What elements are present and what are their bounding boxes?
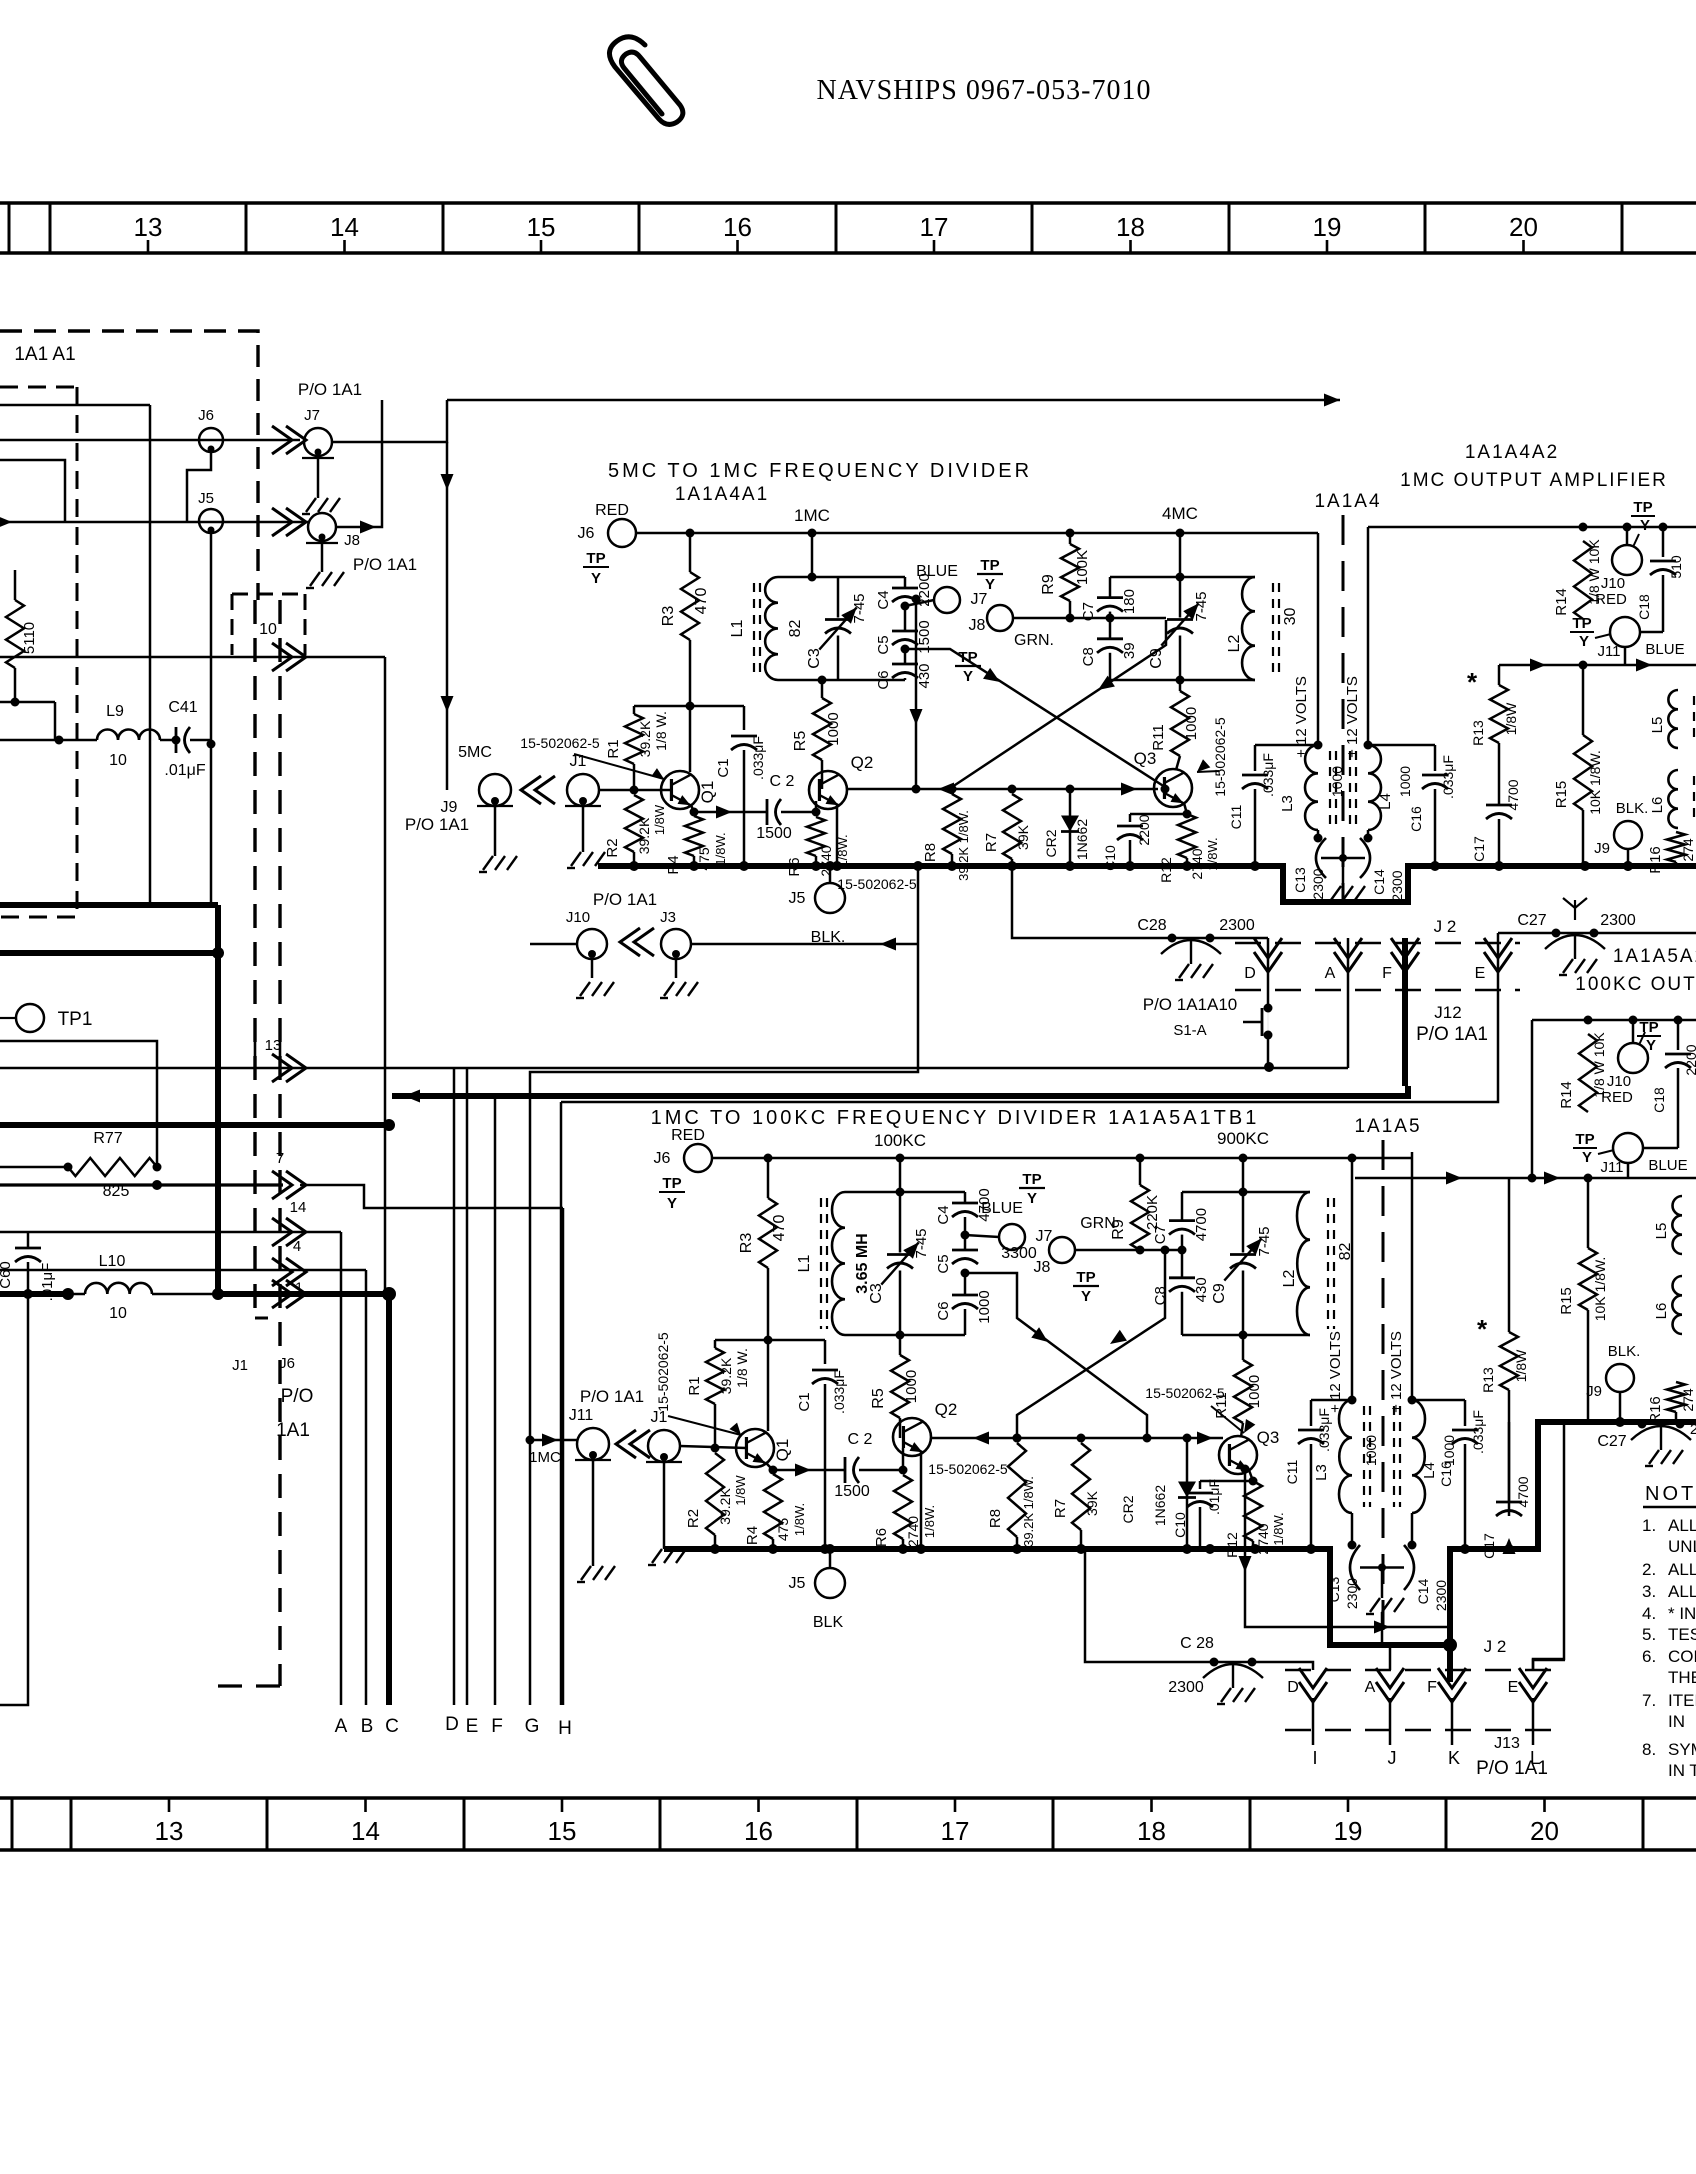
svg-text:UNL: UNL xyxy=(1668,1537,1696,1556)
test point J10 RED with TP Y xyxy=(1629,1016,1638,1025)
svg-text:J7: J7 xyxy=(971,591,988,608)
svg-text:C6: C6 xyxy=(935,1301,952,1320)
svg-text:C17: C17 xyxy=(1471,836,1487,862)
svg-text:TP: TP xyxy=(980,557,999,574)
wire input to Q1 base xyxy=(680,1446,746,1448)
svg-text:1/8W.: 1/8W. xyxy=(792,1503,807,1536)
svg-text:C11: C11 xyxy=(1284,1459,1300,1484)
svg-text:R11: R11 xyxy=(1150,724,1167,750)
ground bus (thick) xyxy=(664,1422,1696,1645)
svg-text:900KC: 900KC xyxy=(1217,1129,1269,1148)
svg-text:C28: C28 xyxy=(1137,917,1166,934)
svg-text:100KC OUT: 100KC OUT xyxy=(1575,974,1696,995)
capacitor C5 xyxy=(892,630,918,633)
wire from J5 down xyxy=(210,533,213,905)
svg-text:1/8 W.: 1/8 W. xyxy=(734,1348,750,1388)
inductor L1 with core xyxy=(765,577,778,680)
capacitor C14 2300 xyxy=(1411,1513,1414,1545)
1MC feed to divider2 input xyxy=(530,1439,577,1442)
svg-text:39.2K: 39.2K xyxy=(717,1488,733,1525)
input connector J9 xyxy=(479,774,511,806)
svg-text:J9: J9 xyxy=(441,799,458,816)
svg-text:C17: C17 xyxy=(1481,1533,1497,1559)
inductor L5 xyxy=(1672,1196,1682,1254)
capacitor C8 xyxy=(1097,637,1123,640)
svg-text:BLUE: BLUE xyxy=(1648,1157,1687,1174)
svg-text:F: F xyxy=(1382,965,1392,982)
svg-text:TP: TP xyxy=(1633,499,1652,516)
svg-text:1MC: 1MC xyxy=(529,1449,561,1466)
long signal wire row 13 to J2 pin A xyxy=(0,1067,1348,1070)
capacitor C18 xyxy=(1659,523,1668,532)
resistor R5 1000 xyxy=(818,676,827,685)
svg-text:1N662: 1N662 xyxy=(1074,819,1090,860)
svg-text:18: 18 xyxy=(1137,1816,1166,1846)
wire row 7 (y=1185) xyxy=(0,1183,283,1186)
svg-text:14: 14 xyxy=(290,1199,307,1216)
svg-text:7.: 7. xyxy=(1642,1691,1656,1710)
top border ruler band xyxy=(0,201,1696,204)
svg-text:1/8W.: 1/8W. xyxy=(1271,1512,1286,1545)
inductor L6 xyxy=(1668,770,1678,828)
column D wire xyxy=(453,1068,456,1705)
pin A feed from transformer ground xyxy=(1382,1612,1390,1670)
pin F line (thick) xyxy=(1402,938,1408,1086)
svg-text:BLK.: BLK. xyxy=(1608,1343,1641,1360)
capacitor C7 xyxy=(1109,577,1112,598)
svg-text:Q1: Q1 xyxy=(773,1439,792,1462)
wire J7 output to top rail xyxy=(332,400,447,442)
variable capacitor C3 7-45 xyxy=(837,577,840,618)
inductor L2 with core xyxy=(1242,577,1255,680)
svg-text:C7: C7 xyxy=(1080,602,1097,621)
J13 pin A xyxy=(1376,1668,1404,1688)
module boundary 1A1A5 (dashed) xyxy=(1382,1140,1385,1640)
svg-text:R16: R16 xyxy=(1647,846,1664,874)
input wire with arrows xyxy=(1499,664,1696,667)
svg-text:C4: C4 xyxy=(935,1205,952,1224)
connector J7 with ground xyxy=(304,428,332,456)
svg-text:GRN.: GRN. xyxy=(1014,632,1054,649)
pin D feed xyxy=(1245,1662,1313,1670)
resistor R4 475 xyxy=(769,1466,778,1475)
connector J13 dashed rows xyxy=(1285,1669,1555,1672)
svg-text:L6: L6 xyxy=(1653,1303,1670,1320)
svg-text:BLUE: BLUE xyxy=(1645,641,1684,658)
test point J7 BLUE xyxy=(965,1235,999,1237)
test point J7 BLUE xyxy=(905,602,934,606)
pin A line to signal 13 xyxy=(1347,938,1350,1068)
+12 VOLTS feed left xyxy=(1317,533,1320,745)
svg-text:2740: 2740 xyxy=(905,1516,921,1547)
svg-text:430: 430 xyxy=(916,663,933,688)
long wire top (to 1A1A4 area) xyxy=(447,399,1340,402)
svg-text:39.2K 1/8W.: 39.2K 1/8W. xyxy=(956,810,971,881)
svg-text:1/8W.: 1/8W. xyxy=(922,1505,937,1538)
svg-text:IN: IN xyxy=(1668,1712,1685,1731)
svg-text:ALL: ALL xyxy=(1668,1516,1696,1535)
svg-text:COM: COM xyxy=(1668,1647,1696,1666)
svg-text:1000: 1000 xyxy=(1183,707,1200,740)
ground under input connector 2 xyxy=(582,806,585,852)
svg-text:2.: 2. xyxy=(1642,1560,1656,1579)
svg-text:4.: 4. xyxy=(1642,1604,1656,1623)
wire row to J6 conn (y=440) xyxy=(0,439,300,442)
svg-text:15: 15 xyxy=(527,212,556,242)
transistor Q3 xyxy=(1241,1423,1243,1437)
svg-text:39: 39 xyxy=(1121,642,1138,659)
resistor R16 274 xyxy=(1667,832,1685,862)
svg-text:475: 475 xyxy=(775,1518,791,1542)
divider2 enclosure box left edge / column H xyxy=(560,1102,563,1705)
svg-text:C14: C14 xyxy=(1415,1578,1431,1604)
capacitor C13 2300 xyxy=(1317,830,1320,838)
svg-text:.033μF: .033μF xyxy=(1260,753,1276,797)
resistor R5 1000 xyxy=(896,1331,905,1340)
svg-text:.033μF: .033μF xyxy=(831,1370,847,1414)
Q2 emitter to ground bus xyxy=(836,804,839,866)
variable capacitor C3 7-45 xyxy=(899,1192,902,1253)
tank2 top wire xyxy=(1110,576,1255,579)
svg-text:Y: Y xyxy=(667,1195,677,1212)
svg-text:A: A xyxy=(335,1716,348,1737)
tank2 bottom wire xyxy=(1110,679,1255,682)
cable chevron 10 with dashed box xyxy=(231,594,234,655)
svg-text:10: 10 xyxy=(109,1305,127,1322)
svg-text:.01μF: .01μF xyxy=(164,762,205,779)
svg-text:THET: THET xyxy=(1668,1668,1696,1687)
resistor R3 470 xyxy=(689,533,692,572)
svg-text:J1: J1 xyxy=(570,753,587,770)
svg-text:J6: J6 xyxy=(654,1150,671,1167)
svg-text:.033μF: .033μF xyxy=(1316,1408,1332,1452)
svg-text:2200: 2200 xyxy=(1683,1044,1696,1075)
capacitor C11 .033uF xyxy=(1255,744,1318,747)
svg-text:J8: J8 xyxy=(969,617,986,634)
svg-text:L1: L1 xyxy=(729,620,746,638)
wire row to J5 (y=522) xyxy=(0,521,310,524)
inductor L3 (primary) xyxy=(1314,741,1323,750)
svg-text:P/O 1A1A10: P/O 1A1A10 xyxy=(1143,995,1238,1014)
resistor R13* 1/8W xyxy=(1498,665,1501,685)
svg-text:180: 180 xyxy=(1121,589,1138,614)
svg-text:1000: 1000 xyxy=(976,1290,993,1323)
svg-text:R14: R14 xyxy=(1553,588,1570,616)
junction C4/C5 to J7 xyxy=(964,1217,967,1250)
wire thick stub y=905 xyxy=(0,902,218,908)
svg-text:J7: J7 xyxy=(304,407,320,424)
resistor R9 xyxy=(1066,529,1075,538)
variable capacitor C9 7-45 xyxy=(1242,1192,1245,1253)
transistor Q1 xyxy=(661,771,699,809)
cable chevron at input xyxy=(630,1430,650,1458)
svg-text:C41: C41 xyxy=(168,699,197,716)
svg-text:1500: 1500 xyxy=(834,1483,870,1500)
svg-text:7: 7 xyxy=(276,1150,284,1167)
bottom border ruler band xyxy=(0,1796,1696,1799)
svg-text:Y: Y xyxy=(1081,1288,1091,1305)
J13 pin F xyxy=(1438,1668,1466,1688)
svg-text:14: 14 xyxy=(351,1816,380,1846)
wire J8 to R9 bottom and C7/C8 junction xyxy=(1013,617,1166,620)
transistor Q3 xyxy=(1176,756,1180,770)
capacitor C2 1500 xyxy=(844,1457,847,1483)
svg-text:Y: Y xyxy=(1579,633,1589,650)
tank1 top wire xyxy=(845,1191,965,1194)
svg-text:L10: L10 xyxy=(99,1253,126,1270)
svg-text:J8: J8 xyxy=(1034,1259,1051,1276)
svg-text:2200: 2200 xyxy=(1136,814,1152,845)
svg-text:Y: Y xyxy=(985,576,995,593)
wire J11 to C18 xyxy=(1640,631,1663,634)
svg-text:1A1A5A2: 1A1A5A2 xyxy=(1613,946,1696,967)
svg-text:7-45: 7-45 xyxy=(1256,1226,1273,1256)
connector J5 (1A1A1) xyxy=(199,509,223,533)
svg-text:C1: C1 xyxy=(796,1392,813,1411)
svg-text:1A1A5: 1A1A5 xyxy=(1354,1116,1421,1137)
cable chevron at input xyxy=(535,776,555,804)
svg-text:430: 430 xyxy=(1193,1277,1210,1302)
J2 pin E xyxy=(1484,938,1512,958)
svg-text:1500: 1500 xyxy=(756,825,792,842)
top rail wire xyxy=(636,532,1318,535)
svg-text:1.: 1. xyxy=(1642,1516,1656,1535)
resistor R15 10K 1/8W xyxy=(1582,665,1585,735)
signal wire Q3 output to J13 (bottom) xyxy=(1245,1469,1448,1627)
test point J11 BLUE with TP Y xyxy=(1610,617,1640,647)
svg-text:P/O 1A1: P/O 1A1 xyxy=(1476,1758,1548,1779)
page header: paperclip mark xyxy=(609,37,682,125)
resistor R3 470 xyxy=(767,1158,770,1198)
svg-text:R8: R8 xyxy=(922,843,939,862)
junction C5/C6 xyxy=(961,1269,970,1278)
svg-text:J10: J10 xyxy=(1607,1073,1631,1090)
module boundary 1A1A1 (dashed) xyxy=(0,331,258,600)
svg-text:R8: R8 xyxy=(987,1509,1004,1528)
svg-text:2300: 2300 xyxy=(1344,1578,1360,1609)
svg-text:15-502062-5: 15-502062-5 xyxy=(928,1461,1008,1477)
svg-text:100K: 100K xyxy=(1074,550,1091,585)
connector J8 with ground xyxy=(308,513,336,541)
svg-text:1A1A4A2: 1A1A4A2 xyxy=(1465,442,1559,463)
vertical wire x=150 xyxy=(149,405,152,905)
inductor L9 xyxy=(54,702,57,740)
svg-text:J 2: J 2 xyxy=(1434,917,1457,936)
ground under input connector 2 xyxy=(663,1462,666,1549)
diode CR2 1N662 xyxy=(1066,785,1075,794)
svg-text:18: 18 xyxy=(1116,212,1145,242)
svg-text:L5: L5 xyxy=(1653,1223,1670,1240)
svg-text:39.2K 1/8W.: 39.2K 1/8W. xyxy=(1021,1476,1036,1547)
svg-text:Y: Y xyxy=(1640,517,1650,534)
svg-text:TP1: TP1 xyxy=(58,1009,93,1030)
capacitor C17 4700 xyxy=(1508,1390,1511,1502)
svg-text:15-502062-5: 15-502062-5 xyxy=(1212,717,1228,797)
cross-couple wire B (to Q2 side) xyxy=(1017,1252,1165,1436)
svg-text:.01μF: .01μF xyxy=(39,1263,56,1302)
svg-text:R15: R15 xyxy=(1558,1287,1575,1315)
svg-text:82: 82 xyxy=(787,620,804,638)
svg-text:L3: L3 xyxy=(1279,795,1296,812)
svg-text:Y: Y xyxy=(963,668,973,685)
wire row 7 continues to column H xyxy=(300,1185,563,1208)
svg-text:R1: R1 xyxy=(605,739,622,758)
J2 pin D xyxy=(1254,938,1282,958)
test point J8 GRN xyxy=(987,605,1013,631)
svg-text:TP: TP xyxy=(1076,1269,1095,1286)
column F wire xyxy=(494,1096,497,1705)
svg-text:39K: 39K xyxy=(1084,1490,1100,1516)
ground under input connector 1 xyxy=(592,1460,595,1566)
svg-text:Q1: Q1 xyxy=(698,781,717,804)
center plate and ground xyxy=(1360,1566,1404,1568)
transistor Q1 xyxy=(736,1429,774,1467)
svg-text:G: G xyxy=(525,1716,540,1737)
svg-text:L3: L3 xyxy=(1313,1464,1330,1481)
svg-text:J9: J9 xyxy=(1594,840,1610,857)
svg-text:39K: 39K xyxy=(1015,824,1031,850)
junction stub y=702 xyxy=(0,701,55,704)
capacitor C1 .033uF xyxy=(824,1340,827,1364)
svg-text:C16: C16 xyxy=(1408,806,1424,832)
resistor R14 10K 1/8W xyxy=(1584,1016,1593,1025)
svg-text:P/O 1A1: P/O 1A1 xyxy=(580,1387,644,1406)
svg-text:D: D xyxy=(1287,1679,1299,1696)
svg-text:E: E xyxy=(1475,965,1486,982)
svg-text:P/O 1A1: P/O 1A1 xyxy=(298,380,362,399)
svg-text:D: D xyxy=(1244,965,1256,982)
svg-text:BLK: BLK xyxy=(813,1614,844,1631)
input connector J1 xyxy=(648,1430,680,1462)
svg-text:* IND: * IND xyxy=(1668,1604,1696,1623)
svg-text:R9: R9 xyxy=(1040,574,1057,595)
svg-text:C7: C7 xyxy=(1152,1225,1169,1244)
capacitor C7 xyxy=(1181,1192,1184,1221)
inductor L3 (primary) xyxy=(1348,1396,1357,1405)
wire R3 to bias row xyxy=(767,1268,770,1340)
svg-text:C8: C8 xyxy=(1080,647,1097,666)
svg-text:C60: C60 xyxy=(0,1261,14,1289)
+12 VOLTS feed right xyxy=(1367,527,1370,745)
svg-text:39.2K: 39.2K xyxy=(718,1357,734,1394)
resistor R12 2740 xyxy=(1178,814,1196,858)
resistor R14 10K 1/8W xyxy=(1579,523,1588,532)
resistor R9 xyxy=(1136,1154,1145,1163)
signal wire down to 5MC input xyxy=(446,442,449,790)
riser from J7 junction to collector wire xyxy=(915,602,918,789)
vertical from row 10 down to thick node xyxy=(384,657,387,1294)
svg-text:Y: Y xyxy=(1027,1190,1037,1207)
svg-text:J11: J11 xyxy=(569,1407,594,1424)
svg-text:L2: L2 xyxy=(1281,1270,1298,1288)
connector J2 dashed rows xyxy=(1235,942,1520,945)
svg-text:C13: C13 xyxy=(1292,867,1308,893)
svg-text:+ 12 VOLTS: + 12 VOLTS xyxy=(1344,676,1361,758)
feed-through capacitor C28 (bottom) xyxy=(1085,1549,1245,1662)
svg-text:L4: L4 xyxy=(1377,793,1394,810)
wire J10 row to G column xyxy=(530,943,577,946)
svg-text:P/O 1A1: P/O 1A1 xyxy=(353,555,417,574)
svg-text:C9: C9 xyxy=(1211,1283,1228,1304)
svg-text:5110: 5110 xyxy=(21,622,38,654)
svg-text:15-502062-5: 15-502062-5 xyxy=(837,876,917,892)
svg-text:2: 2 xyxy=(1690,1421,1696,1438)
junction R3 top xyxy=(686,529,695,538)
amp2 rail feed riser xyxy=(1531,1020,1534,1178)
svg-text:H: H xyxy=(558,1718,572,1739)
+12 VOLTS feed right xyxy=(1411,1152,1414,1400)
svg-text:C27: C27 xyxy=(1517,912,1546,929)
resistor R15 10K 1/8W xyxy=(1587,1178,1590,1248)
tank1 bottom wire xyxy=(778,679,905,682)
svg-text:1/8W: 1/8W xyxy=(1513,1349,1529,1382)
svg-text:C4: C4 xyxy=(875,590,892,609)
capacitor C16 .033uF xyxy=(1368,744,1435,747)
svg-text:1A1A4: 1A1A4 xyxy=(1314,491,1381,512)
svg-text:274: 274 xyxy=(1680,1388,1696,1412)
svg-text:P/O 1A1: P/O 1A1 xyxy=(405,815,469,834)
resistor R2 39.2K xyxy=(706,1453,724,1535)
test point J9 BLK xyxy=(1614,821,1642,849)
column C wire (thick) xyxy=(386,1294,392,1705)
svg-text:C 2: C 2 xyxy=(770,773,795,790)
wire row below TP1 xyxy=(0,1041,157,1167)
svg-text:20: 20 xyxy=(1509,212,1538,242)
svg-text:TP: TP xyxy=(586,550,605,567)
capacitor C11 .033uF xyxy=(1311,1399,1352,1402)
emitter wire Q1 to C2 xyxy=(766,1463,845,1470)
input wire with arrows xyxy=(1355,1177,1696,1180)
resistor R12 2740 xyxy=(1244,1481,1262,1541)
svg-text:C 2: C 2 xyxy=(848,1431,873,1448)
capacitor C16 .033uF xyxy=(1412,1399,1465,1402)
capacitor C13 2300 xyxy=(1351,1513,1354,1545)
resistor R7 39K xyxy=(1008,785,1017,794)
svg-text:39.2K: 39.2K xyxy=(636,817,652,854)
svg-text:C3: C3 xyxy=(868,1283,885,1304)
svg-text:R7: R7 xyxy=(1052,1499,1069,1518)
connector column dashed lines J1/J6 P/O 1A1 xyxy=(253,600,256,1318)
svg-text:Q2: Q2 xyxy=(851,753,874,772)
svg-text:C11: C11 xyxy=(1228,804,1244,829)
svg-text:4: 4 xyxy=(293,1238,301,1255)
svg-text:J9: J9 xyxy=(1586,1383,1602,1400)
svg-text:F: F xyxy=(491,1716,503,1737)
antenna mark above C27 xyxy=(1574,900,1576,920)
inductor L4 (secondary) xyxy=(1364,741,1373,750)
svg-text:Y: Y xyxy=(1582,1149,1592,1166)
wire thick stub y=953 xyxy=(0,950,218,956)
svg-text:A: A xyxy=(1365,1679,1376,1696)
svg-text:C 28: C 28 xyxy=(1180,1635,1214,1652)
resistor R1 39.2K xyxy=(633,706,636,714)
svg-text:R77: R77 xyxy=(93,1130,122,1147)
svg-text:10: 10 xyxy=(259,621,277,638)
svg-text:19: 19 xyxy=(1334,1816,1363,1846)
svg-text:100KC: 100KC xyxy=(874,1131,926,1150)
svg-text:Y: Y xyxy=(1646,1037,1656,1054)
capacitor C1 .033uF xyxy=(743,706,746,730)
test point J5 BLK xyxy=(829,866,832,883)
svg-text:A: A xyxy=(1325,965,1336,982)
test point J8 GRN xyxy=(1049,1237,1075,1263)
bias row wire xyxy=(634,705,744,708)
svg-text:C: C xyxy=(385,1716,399,1737)
svg-text:C16: C16 xyxy=(1438,1461,1454,1487)
svg-text:L6: L6 xyxy=(1649,797,1666,814)
svg-text:R16: R16 xyxy=(1647,1396,1664,1424)
test point J10 RED with TP Y xyxy=(1623,523,1632,532)
